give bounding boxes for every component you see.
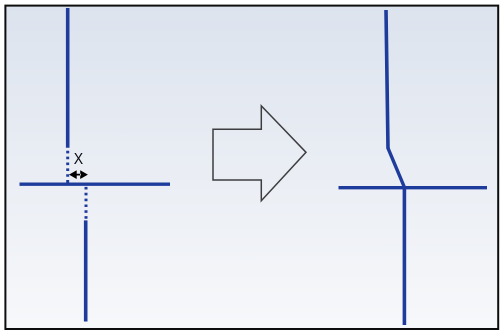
svg-text:X: X [74, 151, 84, 168]
